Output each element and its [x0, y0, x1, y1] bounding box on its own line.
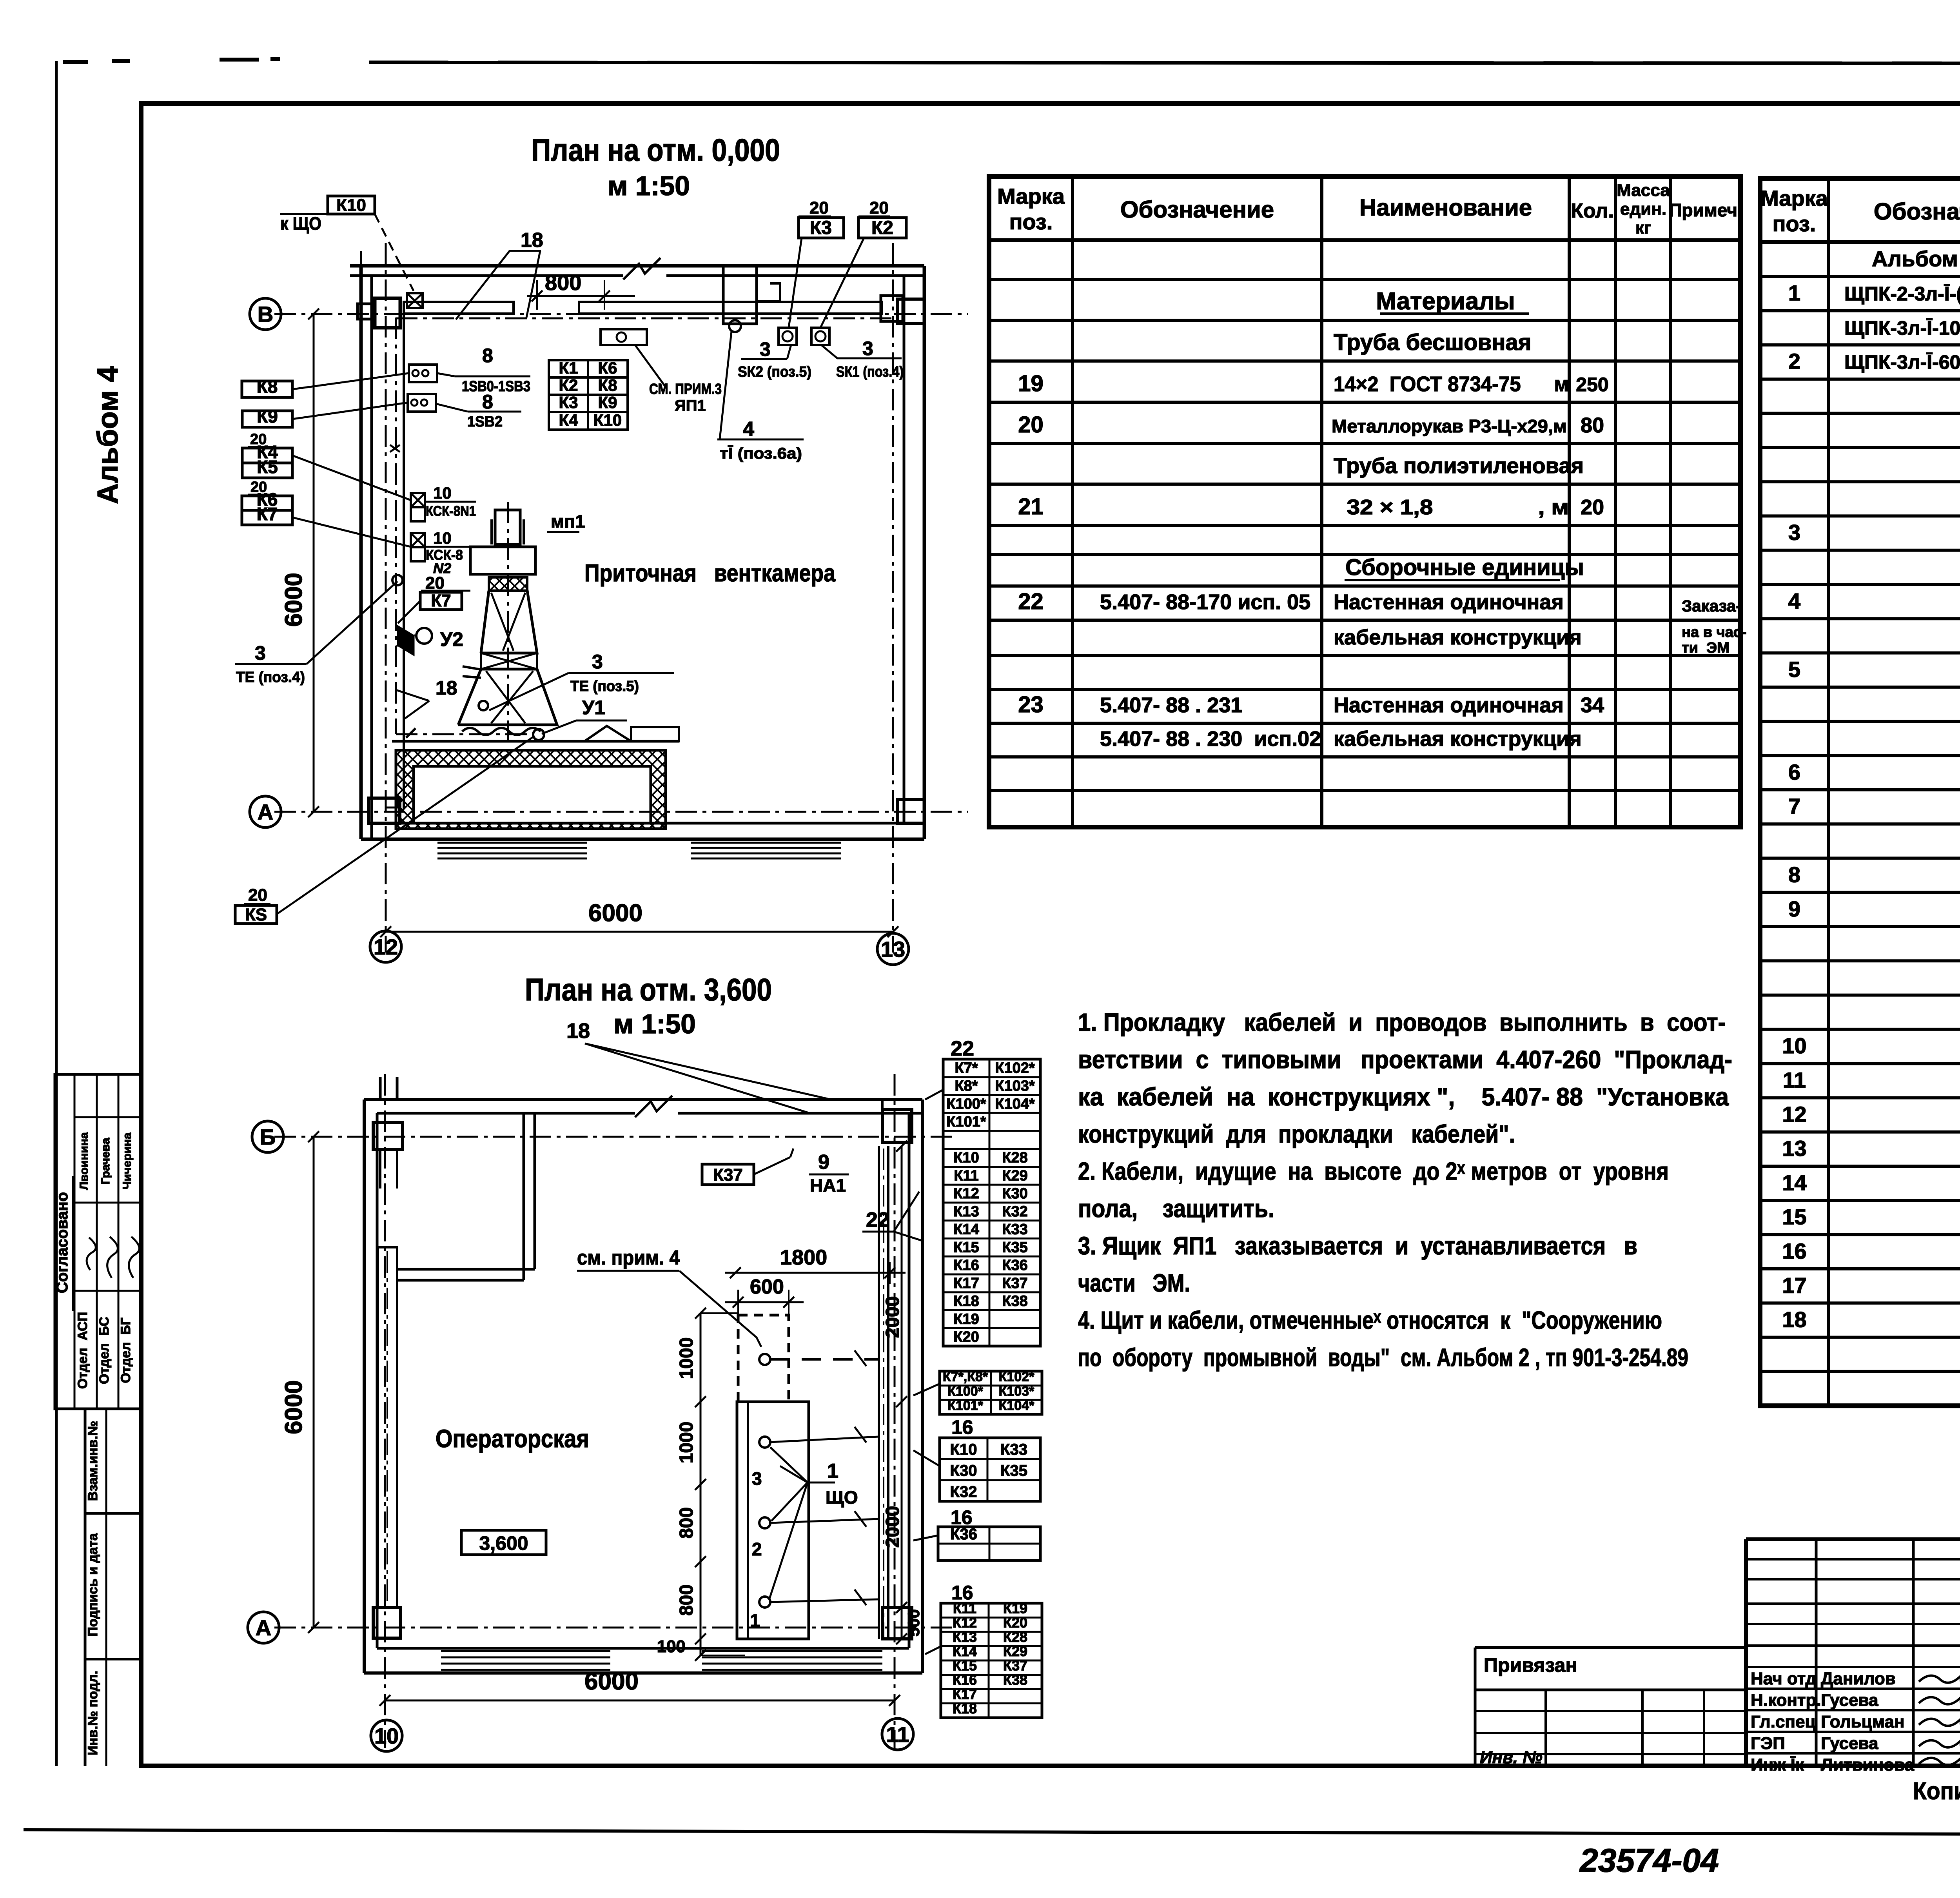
svg-text:16: 16	[951, 1416, 973, 1438]
svg-text:К104*: К104*	[995, 1096, 1035, 1112]
svg-text:Литвинова: Литвинова	[1821, 1755, 1914, 1775]
svg-text:План на отм. 3,600: План на отм. 3,600	[525, 972, 772, 1007]
svg-text:Альбом 4: Альбом 4	[91, 366, 124, 504]
svg-text:К28: К28	[1002, 1150, 1027, 1166]
svg-text:К38: К38	[1002, 1293, 1027, 1310]
svg-text:10: 10	[1782, 1033, 1806, 1058]
svg-text:А: А	[258, 800, 273, 824]
svg-text:Настенная одиночная: Настенная одиночная	[1334, 590, 1564, 614]
svg-text:К7*,К8*: К7*,К8*	[943, 1370, 988, 1384]
svg-text:К11: К11	[954, 1167, 978, 1184]
svg-text:1: 1	[827, 1460, 838, 1482]
svg-text:4: 4	[1788, 588, 1800, 613]
svg-text:16: 16	[951, 1506, 973, 1528]
svg-text:К13: К13	[953, 1629, 977, 1645]
svg-text:Привязан: Привязан	[1484, 1654, 1577, 1676]
svg-text:К2: К2	[871, 218, 893, 238]
svg-text:К104*: К104*	[999, 1398, 1034, 1413]
svg-text:Инв.№ подл.: Инв.№ подл.	[85, 1671, 100, 1755]
svg-text:План на отм. 0,000: План на отм. 0,000	[531, 132, 780, 167]
svg-text:к ЩО: к ЩО	[280, 213, 321, 234]
svg-text:250: 250	[1576, 374, 1608, 396]
svg-text:23: 23	[1018, 692, 1044, 717]
svg-text:кабельная конструкция: кабельная конструкция	[1334, 626, 1582, 649]
svg-text:2: 2	[752, 1539, 762, 1559]
svg-text:К9: К9	[598, 393, 617, 412]
svg-text:ЯП1: ЯП1	[675, 397, 706, 414]
svg-text:по обороту промывной воды": по обороту промывной воды" см. Альбом 2 …	[1078, 1343, 1688, 1372]
svg-text:м 1:50: м 1:50	[613, 1009, 696, 1039]
svg-text:Операторская: Операторская	[436, 1424, 589, 1453]
svg-text:К18: К18	[953, 1700, 977, 1717]
svg-text:Гл.спец: Гл.спец	[1751, 1712, 1816, 1731]
svg-text:К10: К10	[953, 1150, 979, 1166]
svg-text:К11: К11	[953, 1600, 976, 1617]
svg-text:ТЕ (поз.4): ТЕ (поз.4)	[236, 669, 305, 686]
svg-text:16: 16	[1782, 1239, 1806, 1263]
svg-text:Сборочные единицы: Сборочные единицы	[1345, 555, 1584, 580]
svg-text:Марка: Марка	[997, 184, 1065, 209]
svg-text:Н.контр.: Н.контр.	[1751, 1691, 1821, 1710]
svg-text:пола, защитить.: пола, защитить.	[1078, 1194, 1274, 1223]
svg-text:Кол.: Кол.	[1571, 200, 1614, 222]
svg-text:Наименование: Наименование	[1359, 194, 1532, 221]
svg-text:32 × 1,8 , м: 32 × 1,8 , м	[1334, 495, 1569, 519]
svg-text:К3: К3	[810, 218, 832, 238]
svg-text:Отдел БС: Отдел БС	[97, 1317, 112, 1384]
svg-text:К7: К7	[431, 591, 451, 610]
svg-text:3,600: 3,600	[479, 1532, 528, 1554]
svg-text:SК1 (поз.4): SК1 (поз.4)	[836, 364, 904, 380]
svg-text:Гусева: Гусева	[1821, 1734, 1878, 1753]
svg-text:13: 13	[881, 937, 905, 962]
svg-text:8: 8	[482, 391, 493, 413]
svg-text:Б: Б	[260, 1125, 276, 1149]
svg-text:ка кабелей на конструкциях: ка кабелей на конструкциях ", 5.407- 88 …	[1078, 1083, 1729, 1111]
svg-text:22: 22	[866, 1208, 889, 1232]
svg-text:20: 20	[1018, 412, 1044, 437]
svg-text:К35: К35	[1000, 1462, 1027, 1479]
svg-text:15: 15	[1782, 1205, 1806, 1229]
svg-text:В: В	[258, 302, 273, 327]
svg-text:8: 8	[1788, 862, 1800, 887]
svg-text:К9: К9	[257, 406, 278, 426]
svg-text:11: 11	[886, 1722, 909, 1747]
svg-text:К14: К14	[953, 1643, 977, 1659]
svg-text:14×2 ГОСТ 8734-75 м: 14×2 ГОСТ 8734-75 м	[1334, 372, 1569, 396]
svg-text:см. прим. 4: см. прим. 4	[577, 1247, 680, 1269]
svg-text:К36: К36	[950, 1526, 977, 1543]
svg-text:4: 4	[743, 418, 754, 441]
svg-text:К32: К32	[950, 1483, 977, 1501]
svg-text:1: 1	[750, 1610, 760, 1631]
svg-text:К8*: К8*	[955, 1078, 978, 1094]
svg-text:9: 9	[818, 1151, 829, 1174]
svg-text:11: 11	[1783, 1068, 1806, 1092]
svg-text:ЩПК-3л-Ī-600: ЩПК-3л-Ī-600	[1844, 351, 1960, 373]
svg-text:Подпись и дата: Подпись и дата	[85, 1533, 100, 1637]
svg-text:1000: 1000	[676, 1337, 697, 1379]
svg-text:К102*: К102*	[995, 1060, 1035, 1076]
svg-text:К33: К33	[1000, 1441, 1027, 1458]
svg-text:К101*: К101*	[947, 1398, 983, 1413]
svg-text:Обозначение: Обозначение	[1874, 198, 1960, 225]
svg-text:800: 800	[676, 1584, 697, 1616]
svg-text:800: 800	[676, 1507, 697, 1539]
svg-text:20: 20	[1581, 495, 1604, 519]
svg-text:К15: К15	[953, 1239, 979, 1256]
svg-text:18: 18	[1782, 1307, 1806, 1332]
svg-text:Металлорукав Р3-Ц-х29,м: Металлорукав Р3-Ц-х29,м	[1332, 416, 1567, 436]
svg-text:А: А	[256, 1615, 271, 1640]
svg-text:К2: К2	[559, 376, 578, 394]
svg-text:ти ЭМ: ти ЭМ	[1682, 640, 1730, 656]
svg-text:К37: К37	[1002, 1275, 1027, 1292]
svg-text:3: 3	[255, 642, 266, 664]
svg-text:1. Прокладку кабелей и про: 1. Прокладку кабелей и проводов выполнит…	[1078, 1008, 1726, 1036]
svg-text:тĪ (поз.6а): тĪ (поз.6а)	[720, 445, 802, 462]
svg-text:Грачева: Грачева	[99, 1138, 112, 1184]
svg-text:17: 17	[1782, 1273, 1806, 1297]
svg-text:18: 18	[566, 1019, 590, 1043]
svg-text:Приточная венткамера: Приточная венткамера	[584, 560, 835, 587]
svg-text:К101*: К101*	[946, 1114, 986, 1130]
svg-text:К8: К8	[598, 376, 617, 394]
svg-text:1SВ2: 1SВ2	[467, 414, 503, 430]
svg-text:3: 3	[1788, 520, 1800, 545]
svg-text:К15: К15	[953, 1658, 977, 1674]
svg-text:2000: 2000	[882, 1506, 903, 1548]
svg-text:м 1:50: м 1:50	[608, 171, 690, 201]
svg-text:Обозначение: Обозначение	[1120, 196, 1274, 223]
svg-text:Копировал Еремченко: Копировал Еремченко	[1913, 1778, 1960, 1805]
svg-text:части ЭМ.: части ЭМ.	[1078, 1269, 1190, 1297]
svg-text:Материалы: Материалы	[1376, 288, 1515, 315]
svg-text:К100*: К100*	[946, 1096, 986, 1112]
svg-text:К20: К20	[953, 1329, 979, 1345]
svg-text:СМ. ПРИМ.3: СМ. ПРИМ.3	[649, 381, 722, 397]
svg-text:К35: К35	[1002, 1239, 1027, 1256]
svg-text:К14: К14	[953, 1221, 979, 1238]
svg-text:К5: К5	[257, 457, 278, 477]
svg-text:18: 18	[521, 229, 543, 252]
svg-text:на в час-: на в час-	[1682, 624, 1747, 641]
svg-text:5: 5	[1788, 657, 1800, 682]
svg-text:Настенная одиночная: Настенная одиночная	[1334, 693, 1564, 717]
svg-text:К28: К28	[1003, 1629, 1027, 1645]
svg-text:мп1: мп1	[551, 511, 585, 532]
svg-text:2000: 2000	[882, 1296, 903, 1338]
svg-text:6000: 6000	[280, 573, 307, 627]
svg-text:К10: К10	[336, 196, 366, 215]
svg-text:13: 13	[1782, 1136, 1806, 1161]
svg-text:КСК-8N1: КСК-8N1	[426, 503, 476, 519]
svg-text:12: 12	[1782, 1102, 1806, 1127]
svg-text:3: 3	[592, 651, 603, 673]
svg-text:3: 3	[760, 338, 771, 360]
svg-text:кабельная конструкция: кабельная конструкция	[1334, 727, 1582, 751]
svg-text:конструкций для прокладки: конструкций для прокладки кабелей".	[1078, 1120, 1515, 1148]
svg-text:Лвоинина: Лвоинина	[78, 1132, 91, 1190]
svg-text:Гусева: Гусева	[1821, 1691, 1878, 1710]
svg-text:10: 10	[433, 529, 452, 547]
svg-text:3: 3	[862, 338, 873, 359]
svg-text:К103*: К103*	[999, 1384, 1034, 1399]
svg-text:5.407- 88-170 исп. 05: 5.407- 88-170 исп. 05	[1100, 590, 1310, 614]
svg-text:Отдел БГ: Отдел БГ	[118, 1317, 133, 1383]
svg-text:К20: К20	[1003, 1615, 1027, 1631]
svg-text:К7*: К7*	[955, 1060, 978, 1076]
svg-text:К13: К13	[953, 1203, 979, 1220]
svg-text:К18: К18	[953, 1293, 979, 1310]
svg-text:К7: К7	[257, 504, 278, 524]
svg-text:К12: К12	[953, 1615, 977, 1631]
svg-text:20: 20	[869, 198, 889, 218]
svg-text:К30: К30	[1002, 1185, 1027, 1202]
svg-text:Инв. №: Инв. №	[1480, 1748, 1543, 1767]
svg-text:Гольцман: Гольцман	[1821, 1712, 1905, 1731]
svg-text:Труба бесшовная: Труба бесшовная	[1334, 330, 1531, 355]
svg-text:9: 9	[1788, 896, 1800, 921]
svg-text:У1: У1	[582, 697, 605, 719]
svg-text:К19: К19	[1003, 1600, 1027, 1617]
svg-text:К16: К16	[953, 1257, 979, 1274]
svg-text:К37: К37	[1003, 1658, 1027, 1674]
svg-text:2: 2	[1788, 349, 1800, 374]
svg-text:6: 6	[1788, 760, 1800, 784]
svg-text:800: 800	[545, 270, 581, 295]
svg-text:6000: 6000	[588, 900, 642, 927]
svg-text:К17: К17	[953, 1686, 977, 1702]
svg-text:К3: К3	[559, 393, 578, 412]
svg-text:К4: К4	[559, 411, 579, 429]
svg-text:кг: кг	[1635, 218, 1651, 238]
svg-text:К29: К29	[1003, 1643, 1027, 1659]
svg-text:ЩПК-3л-Ī-1000: ЩПК-3л-Ī-1000	[1844, 317, 1960, 339]
svg-text:22: 22	[1018, 589, 1044, 614]
svg-text:18: 18	[436, 677, 457, 699]
svg-text:Примеч.: Примеч.	[1669, 200, 1742, 220]
svg-text:К29: К29	[1002, 1167, 1027, 1184]
svg-text:ТЕ (поз.5): ТЕ (поз.5)	[570, 678, 639, 695]
svg-text:100: 100	[657, 1637, 686, 1656]
svg-text:Отдел АСП: Отдел АСП	[75, 1312, 90, 1389]
svg-text:Чичерина: Чичерина	[121, 1132, 134, 1190]
svg-text:К30: К30	[950, 1462, 977, 1479]
svg-text:SК2 (поз.5): SК2 (поз.5)	[738, 364, 811, 380]
svg-text:7: 7	[1788, 794, 1800, 818]
svg-text:К103*: К103*	[995, 1078, 1035, 1094]
svg-text:20: 20	[248, 885, 267, 905]
svg-text:К8: К8	[257, 376, 278, 397]
svg-text:К10: К10	[950, 1441, 977, 1458]
svg-text:НА1: НА1	[810, 1175, 846, 1196]
svg-text:12: 12	[374, 934, 398, 959]
svg-text:Согласовано: Согласовано	[54, 1192, 71, 1293]
svg-text:К100*: К100*	[947, 1384, 983, 1399]
svg-text:Взам.инв.№: Взам.инв.№	[85, 1421, 100, 1501]
svg-text:80: 80	[1581, 414, 1604, 437]
svg-text:14: 14	[1782, 1170, 1806, 1195]
svg-text:8: 8	[482, 345, 493, 367]
svg-text:К37: К37	[713, 1165, 743, 1185]
svg-text:Марка: Марка	[1760, 186, 1828, 210]
svg-text:ЩПК-2-3л-Ī-(800+800): ЩПК-2-3л-Ī-(800+800)	[1844, 283, 1960, 305]
svg-text:К6: К6	[598, 359, 617, 377]
svg-text:К32: К32	[1002, 1203, 1027, 1220]
svg-text:6000: 6000	[280, 1380, 307, 1434]
svg-text:К36: К36	[1002, 1257, 1027, 1274]
svg-text:К19: К19	[953, 1311, 979, 1327]
svg-text:ГЭП: ГЭП	[1751, 1734, 1785, 1753]
svg-text:Масса: Масса	[1617, 181, 1670, 200]
svg-text:19: 19	[1018, 371, 1044, 396]
svg-text:Нач отд: Нач отд	[1751, 1669, 1817, 1688]
svg-text:К1: К1	[559, 359, 578, 377]
svg-text:21: 21	[1018, 494, 1044, 519]
svg-text:К33: К33	[1002, 1221, 1027, 1238]
svg-text:К12: К12	[953, 1185, 979, 1202]
svg-text:ЩО: ЩО	[826, 1487, 858, 1508]
svg-text:600: 600	[750, 1276, 784, 1298]
svg-text:3: 3	[752, 1468, 762, 1489]
svg-text:23574-04: 23574-04	[1579, 1842, 1719, 1879]
svg-text:1SВ0-1SВ3: 1SВ0-1SВ3	[462, 378, 530, 395]
svg-text:К17: К17	[953, 1275, 979, 1292]
svg-text:К38: К38	[1003, 1672, 1027, 1688]
svg-text:Данилов: Данилов	[1821, 1669, 1896, 1688]
svg-text:ветствии с типовыми проект: ветствии с типовыми проектами 4.407-260 …	[1078, 1045, 1732, 1074]
svg-text:К102*: К102*	[999, 1370, 1034, 1384]
svg-text:1000: 1000	[676, 1422, 697, 1464]
svg-text:10: 10	[374, 1724, 399, 1748]
svg-text:2. Кабели, идущие на высоте: 2. Кабели, идущие на высоте до 2ˣ метров…	[1078, 1157, 1669, 1185]
svg-text:1800: 1800	[780, 1246, 827, 1269]
svg-text:Заказа-: Заказа-	[1682, 597, 1741, 615]
svg-text:Труба полиэтиленовая: Труба полиэтиленовая	[1334, 453, 1584, 478]
svg-text:поз.: поз.	[1773, 211, 1816, 236]
svg-text:Инж Īк: Инж Īк	[1751, 1755, 1804, 1775]
svg-text:5.407- 88 . 230 исп.02: 5.407- 88 . 230 исп.02	[1100, 727, 1321, 751]
svg-text:КS: КS	[245, 905, 267, 924]
svg-text:34: 34	[1581, 693, 1604, 717]
svg-text:Альбом 6.: Альбом 6.	[1872, 246, 1960, 271]
svg-text:У2: У2	[440, 628, 463, 650]
svg-text:10: 10	[433, 484, 452, 502]
svg-text:К16: К16	[953, 1672, 977, 1688]
svg-text:5.407- 88 . 231: 5.407- 88 . 231	[1100, 693, 1242, 717]
svg-text:20: 20	[809, 198, 829, 218]
svg-text:3. Ящик ЯП1 заказывается и: 3. Ящик ЯП1 заказывается и устанавливает…	[1078, 1232, 1637, 1260]
svg-text:1: 1	[1788, 281, 1800, 305]
svg-text:един.: един.	[1620, 200, 1666, 219]
svg-text:поз.: поз.	[1009, 209, 1053, 234]
svg-text:4. Щит и кабели, отмеченныеˣ о: 4. Щит и кабели, отмеченныеˣ относятся к…	[1078, 1306, 1662, 1334]
svg-text:К10: К10	[593, 411, 622, 429]
svg-text:500: 500	[904, 1609, 923, 1637]
svg-text:22: 22	[951, 1037, 974, 1060]
